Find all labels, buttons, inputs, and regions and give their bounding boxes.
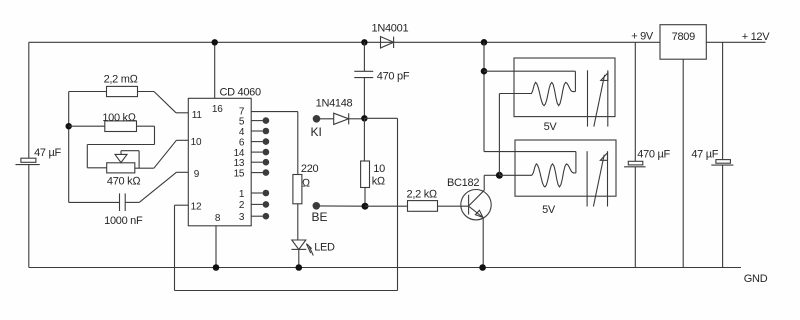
LED [291, 204, 335, 271]
wire reset path pin 12 loop [175, 118, 398, 290]
node relay feed column from +9V [481, 39, 503, 179]
relay RE2 5V [484, 140, 616, 216]
svg-text:9: 9 [194, 169, 200, 180]
svg-text:16: 16 [212, 104, 223, 115]
IC U1 CD 4060 [188, 87, 261, 226]
regulator U2 7809 [660, 25, 706, 268]
capacitor 47 µF (left electrolytic) [16, 147, 62, 164]
svg-text:7809: 7809 [672, 31, 695, 43]
svg-text:+ 12V: + 12V [742, 31, 771, 43]
resistor 220 Ohm [293, 163, 319, 204]
svg-text:15: 15 [234, 168, 245, 179]
resistor 2,2 MOhm [69, 73, 189, 113]
svg-text:5: 5 [239, 116, 245, 127]
resistor 10 kOhm [361, 118, 386, 206]
relay RE1 5V [484, 58, 615, 133]
wire pin16 to top rail [212, 39, 218, 98]
svg-text:470 pF: 470 pF [377, 71, 410, 83]
node IC output bullets pins 5,4,6,14,13,15,1,2,3 [251, 117, 269, 219]
svg-text:GND: GND [744, 273, 768, 285]
diode 1N4148 with KI terminal [311, 98, 368, 139]
wire left edge upper [28, 42, 30, 158]
svg-text:1N4148: 1N4148 [316, 98, 353, 110]
wire left edge lower [28, 165, 30, 268]
wire top +9V rail [29, 41, 660, 43]
node BE terminal [312, 202, 369, 224]
diode 1N4001 on top rail [361, 22, 408, 48]
capacitor 47 µF (right electrolytic) [691, 42, 733, 267]
svg-text:5V: 5V [542, 204, 556, 216]
svg-text:100 kΩ: 100 kΩ [102, 112, 136, 124]
svg-text:+ 9V: + 9V [631, 30, 654, 42]
svg-text:12: 12 [191, 202, 202, 213]
svg-text:47 µF: 47 µF [691, 149, 718, 161]
svg-text:KI: KI [311, 125, 322, 139]
wire top rail right of 7809 (+12V) [706, 41, 765, 43]
svg-text:470 µF: 470 µF [637, 149, 670, 161]
capacitor 1000 nF [69, 172, 189, 227]
svg-text:BE: BE [312, 210, 328, 224]
svg-text:11: 11 [192, 110, 203, 121]
capacitor 470 µF (electrolytic) [624, 42, 670, 267]
svg-text:2,2 kΩ: 2,2 kΩ [407, 188, 438, 200]
svg-text:10: 10 [191, 137, 202, 148]
svg-text:220: 220 [301, 163, 319, 175]
svg-text:Ω: Ω [302, 177, 311, 189]
transistor Q1 BC182 [447, 175, 499, 271]
wire pin8 to ground rail [213, 226, 220, 271]
svg-text:CD 4060: CD 4060 [220, 87, 261, 99]
svg-text:1N4001: 1N4001 [372, 22, 409, 34]
svg-text:2: 2 [239, 200, 245, 211]
potentiometer 470 kOhm [87, 140, 188, 187]
svg-text:4: 4 [239, 127, 245, 138]
svg-text:kΩ: kΩ [372, 175, 386, 187]
svg-text:1: 1 [239, 189, 245, 200]
capacitor 470 pF [354, 42, 410, 118]
svg-text:2,2 mΩ: 2,2 mΩ [104, 73, 139, 85]
svg-text:470 kΩ: 470 kΩ [107, 176, 141, 188]
svg-text:6: 6 [239, 137, 245, 148]
svg-text:5V: 5V [544, 121, 558, 133]
svg-text:47 µF: 47 µF [34, 147, 61, 159]
svg-text:10: 10 [373, 163, 385, 175]
svg-text:3: 3 [239, 212, 245, 223]
svg-text:13: 13 [234, 158, 245, 169]
resistor 2,2 kOhm [365, 188, 468, 211]
node oscillator junction column [66, 92, 72, 203]
resistor 100 kOhm [69, 112, 155, 144]
wire bottom ground rail [29, 267, 741, 269]
svg-text:1000 nF: 1000 nF [104, 215, 143, 227]
svg-text:BC182: BC182 [447, 177, 479, 189]
wire pin 7 to 220 ohm resistor [251, 112, 298, 175]
svg-text:8: 8 [215, 213, 221, 224]
svg-text:LED: LED [314, 242, 335, 254]
